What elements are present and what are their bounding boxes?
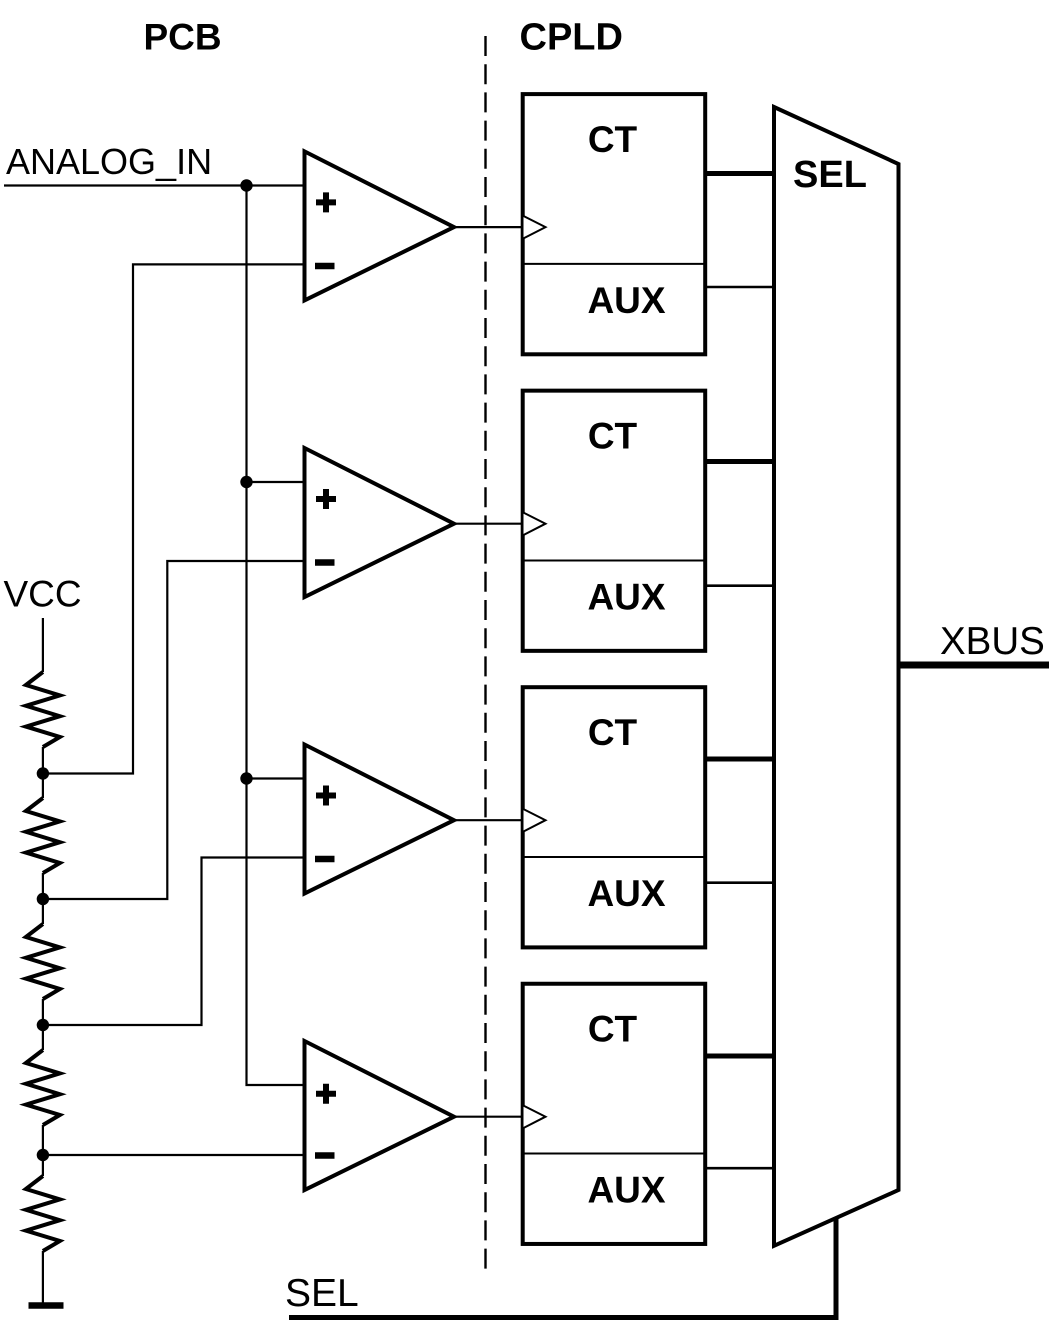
wire CT1 bus to mux [705,171,775,176]
op-amp comparator U1 [305,151,455,300]
wire AUX3 to mux [705,881,775,884]
wire R3 to node C [42,999,44,1050]
wire CT2 bus to mux [705,459,775,464]
counter block 1 [523,94,706,354]
wire node A to comparator 1 - input [43,264,304,773]
svg-text:SEL: SEL [793,154,867,196]
wire AUX4 to mux [705,1167,775,1170]
wire comparator 1 output [454,226,523,228]
wire VCC to resistor ladder [42,618,44,672]
resistor R5 [26,1176,60,1251]
wire branch to comparator 3 + input [247,777,305,779]
wire node B to comparator 2 - input [43,561,304,899]
svg-text:AUX: AUX [587,1170,665,1211]
svg-text:CT: CT [588,1009,638,1050]
wire CT4 bus to mux [705,1054,775,1059]
dashed PCB/CPLD boundary line [484,36,486,1273]
wire comparator 4 output [454,1116,523,1118]
svg-text:CPLD: CPLD [520,17,623,59]
resistor R2 [26,798,60,873]
node junction dot on ANALOG_IN [240,179,252,191]
wire ANALOG_IN vertical trunk [247,186,305,1086]
svg-text:ANALOG_IN: ANALOG_IN [6,141,212,182]
svg-text:AUX: AUX [587,280,665,321]
svg-text:AUX: AUX [587,873,665,914]
counter block 2 [523,391,706,651]
resistor R4 [26,1050,60,1125]
svg-text:AUX: AUX [587,577,665,618]
multiplexer SEL [774,107,899,1246]
wire R5 to ground [42,1251,44,1305]
wire node C to comparator 3 - input [43,858,304,1026]
ground [29,1302,64,1309]
counter block 4 [523,984,706,1244]
resistor R1 [26,672,60,747]
svg-text:XBUS: XBUS [940,620,1045,663]
wire XBUS output [899,662,1049,669]
wire ANALOG_IN horizontal [4,184,304,186]
wire branch to comparator 2 + input [247,481,305,483]
wire node D to comparator 4 - input [43,1154,304,1156]
wire CT3 bus to mux [705,757,775,762]
svg-text:PCB: PCB [144,17,222,58]
svg-text:CT: CT [588,712,638,753]
wire AUX1 to mux [705,286,775,289]
wire R2 to node B [42,873,44,924]
svg-text:CT: CT [588,416,638,457]
op-amp comparator U2 [305,448,455,597]
node B junction dot [37,893,49,905]
op-amp comparator U4 [305,1041,455,1190]
svg-text:SEL: SEL [285,1272,359,1315]
wire SEL select input [289,1219,836,1318]
wire R4 to node D [42,1125,44,1176]
wire comparator 3 output [454,819,523,821]
node junction dot to comparator 3 [240,772,252,784]
node D junction dot [37,1149,49,1161]
op-amp comparator U3 [305,745,455,894]
wire comparator 2 output [454,523,523,525]
wire AUX2 to mux [705,584,775,587]
resistor R3 [26,924,60,999]
wire R1 to node A [42,747,44,798]
svg-text:CT: CT [588,119,638,160]
svg-text:VCC: VCC [4,574,82,615]
node A junction dot [37,767,49,779]
counter block 3 [523,687,706,947]
node C junction dot [37,1019,49,1031]
node junction dot to comparator 2 [240,476,252,488]
